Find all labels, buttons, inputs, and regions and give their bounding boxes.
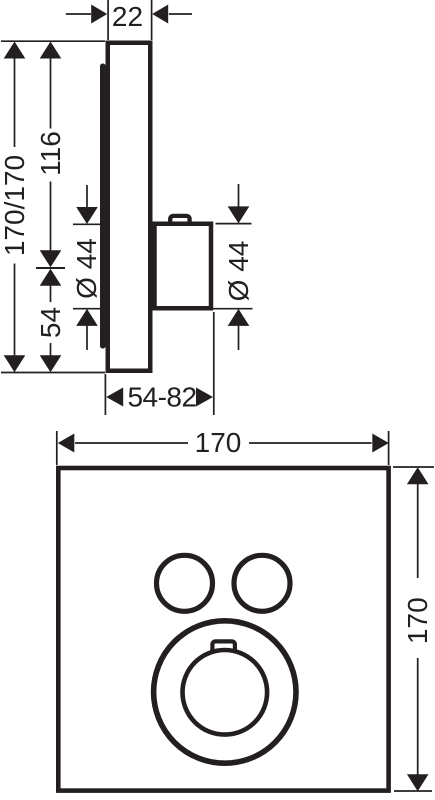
dimension 54-82 extension lines — [105, 312, 213, 415]
dimension 54-82 — [106, 382, 213, 413]
dimension Ø44 right extension lines — [213, 224, 253, 309]
svg-text:54: 54 — [35, 307, 66, 338]
left button (front view) — [157, 555, 213, 611]
svg-text:Ø 44: Ø 44 — [223, 241, 254, 302]
safety stop tab (side view) — [170, 216, 189, 227]
thermostat knob outer ring (front view) — [154, 621, 296, 763]
dimension 54 — [35, 269, 66, 373]
svg-text:54-82: 54-82 — [127, 382, 196, 413]
escutcheon plate (side view) — [108, 43, 151, 371]
top extension line (overall height) — [1, 40, 105, 42]
dimension 22 extension lines — [108, 0, 152, 40]
dimension 170/170 (overall height, side view) — [0, 42, 30, 373]
bottom extension line (overall height) — [1, 372, 105, 374]
valve cylinder (side view) — [155, 224, 212, 309]
dimension Ø44 left — [71, 185, 102, 350]
thermostat knob inner circle (front view) — [183, 650, 268, 735]
svg-text:22: 22 — [112, 1, 143, 32]
dimension 22 — [66, 1, 192, 32]
svg-text:Ø 44: Ø 44 — [71, 238, 102, 299]
dimension Ø44 right — [223, 184, 254, 350]
chain tick between 116 and 54 — [36, 267, 65, 269]
dimension 170 height extension lines — [393, 467, 434, 791]
wall flange bar (concealed body, side view) — [100, 64, 106, 349]
svg-text:170: 170 — [402, 597, 433, 644]
svg-text:170/170: 170/170 — [0, 155, 30, 256]
dimension 170 height (front view) — [402, 467, 433, 791]
dimension Ø44 left extension ticks — [73, 224, 100, 308]
svg-text:170: 170 — [195, 427, 242, 458]
dimension 116 — [35, 42, 66, 268]
dimension 170 width (front view) — [58, 427, 389, 458]
knob grip tab (front view) — [212, 641, 235, 655]
escutcheon plate (front view) — [58, 468, 388, 791]
dimension 170 width extension lines — [57, 431, 389, 465]
right button (front view) — [234, 555, 290, 611]
svg-text:116: 116 — [35, 131, 66, 176]
